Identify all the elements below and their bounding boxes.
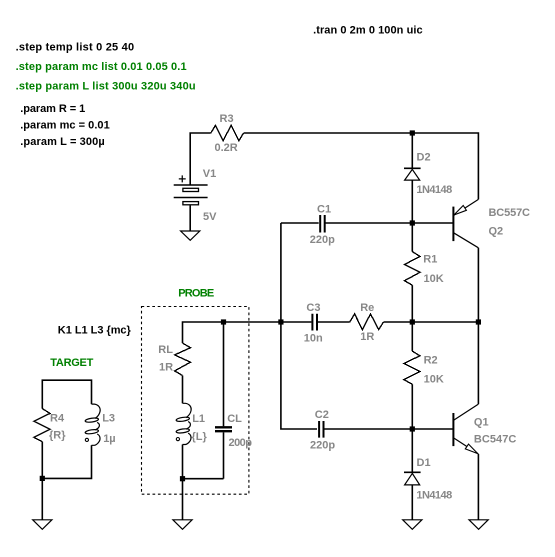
- resistor R2: [404, 322, 444, 429]
- junction Q1 base node: [410, 426, 415, 431]
- svg-text:R2: R2: [424, 355, 438, 367]
- inductor L1: [176, 403, 208, 444]
- wire RL bottom to L1 top: [182, 376, 184, 404]
- transistor Q1: [453, 404, 516, 454]
- svg-text:5V: 5V: [203, 211, 217, 223]
- wire C1 left down to C2 left: [281, 223, 317, 429]
- svg-text:220p: 220p: [310, 440, 335, 452]
- wire D2 bottom to Q2 base node: [411, 180, 413, 223]
- svg-text:.step param mc list 0.01 0.05: .step param mc list 0.01 0.05 0.1: [16, 61, 187, 73]
- svg-text:C1: C1: [317, 203, 331, 215]
- svg-text:TARGET: TARGET: [50, 357, 93, 369]
- resistor Re: [350, 302, 384, 343]
- wire D2 top: [411, 133, 413, 168]
- svg-text:10n: 10n: [304, 333, 323, 345]
- junction TARGET bottom node: [40, 476, 45, 481]
- junction PROBE bottom node: [180, 476, 185, 481]
- ground V1: [181, 231, 200, 240]
- junction Q2 base node: [410, 220, 415, 225]
- junction collectors node: [476, 319, 481, 324]
- voltage source V1 battery: [174, 168, 217, 223]
- capacitor C2: [310, 409, 412, 451]
- junction CL top: [221, 319, 226, 324]
- wire Q2 base: [412, 222, 452, 224]
- inductor L3: [85, 404, 116, 445]
- wire Q1 base: [412, 428, 452, 430]
- svg-text:K1 L1 L3 {mc}: K1 L1 L3 {mc}: [58, 325, 132, 337]
- wire Q1 collector up: [477, 322, 479, 404]
- svg-text:10K: 10K: [424, 273, 444, 285]
- svg-text:C2: C2: [315, 409, 329, 421]
- wire Q1 emitter to ground: [477, 454, 479, 520]
- wire probe bottom node: [183, 478, 224, 480]
- svg-text:Re: Re: [360, 302, 374, 314]
- svg-text:1N4148: 1N4148: [416, 489, 452, 501]
- svg-text:200p: 200p: [229, 437, 253, 449]
- capacitor CL: [215, 322, 252, 479]
- svg-text:R3: R3: [220, 113, 234, 125]
- svg-text:.param L = 300µ: .param L = 300µ: [20, 136, 105, 148]
- ground PROBE: [173, 520, 192, 530]
- svg-text:BC557C: BC557C: [489, 207, 531, 219]
- wire R3 right along top rail down to Q2 emitter: [244, 133, 479, 199]
- junction R1/R2/Re node: [410, 319, 415, 324]
- wire TARGET bottom: [42, 442, 91, 479]
- diode D2: [404, 152, 452, 196]
- capacitor C1: [281, 203, 412, 246]
- svg-text:R4: R4: [50, 413, 65, 425]
- svg-text:Q2: Q2: [489, 225, 504, 237]
- svg-text:L1: L1: [192, 413, 205, 425]
- svg-text:{L}: {L}: [192, 431, 208, 443]
- wire V1 top to R3 left: [190, 133, 211, 185]
- ground D1: [403, 520, 422, 530]
- svg-text:.param mc = 0.01: .param mc = 0.01: [20, 120, 110, 132]
- svg-text:CL: CL: [227, 413, 242, 425]
- svg-text:.tran 0 2m 0 100n uic: .tran 0 2m 0 100n uic: [313, 25, 423, 37]
- resistor R1: [405, 223, 444, 322]
- resistor R4: [34, 409, 66, 442]
- svg-text:1µ: 1µ: [103, 433, 115, 445]
- transistor Q2: [453, 199, 530, 247]
- wire V1 bottom to ground: [189, 205, 191, 231]
- svg-text:Q1: Q1: [474, 416, 489, 428]
- resistor RL: [158, 343, 190, 375]
- svg-text:BC547C: BC547C: [474, 433, 516, 445]
- svg-text:RL: RL: [158, 344, 173, 356]
- wire Re right to Q collectors node: [384, 321, 479, 323]
- diode D1: [404, 457, 452, 501]
- wire TARGET top: [42, 380, 91, 408]
- ground Q1: [469, 520, 488, 530]
- svg-text:.step param L list 300u 320u 3: .step param L list 300u 320u 340u: [16, 81, 196, 93]
- svg-text:.step temp list 0 25 40: .step temp list 0 25 40: [16, 41, 135, 53]
- wire TARGET node to ground: [41, 478, 43, 519]
- wire D1 top: [411, 429, 413, 472]
- probe enclosure dashed box: [142, 307, 249, 495]
- wire D1 bottom to ground: [411, 485, 413, 520]
- svg-text:L3: L3: [102, 413, 115, 425]
- wire L1 bottom to probe node: [182, 445, 184, 479]
- wire probe node to ground: [182, 479, 184, 520]
- svg-text:1R: 1R: [159, 362, 173, 374]
- svg-text:R1: R1: [423, 254, 437, 266]
- svg-text:0.2R: 0.2R: [215, 142, 238, 154]
- svg-text:1R: 1R: [360, 331, 374, 343]
- svg-text:220p: 220p: [310, 234, 335, 246]
- svg-text:C3: C3: [306, 302, 320, 314]
- wire Q2 collector down: [477, 248, 479, 322]
- capacitor C3: [281, 302, 350, 344]
- junction C-string mid: [278, 319, 283, 324]
- resistor R3: [211, 113, 244, 154]
- svg-text:PROBE: PROBE: [178, 287, 214, 299]
- svg-text:10K: 10K: [424, 374, 444, 386]
- svg-text:D1: D1: [417, 457, 431, 469]
- wire mid row PROBE to C3: [183, 322, 281, 343]
- svg-text:V1: V1: [203, 168, 216, 180]
- junction top rail / D2: [410, 130, 415, 135]
- ground TARGET: [33, 520, 52, 530]
- svg-text:.param R = 1: .param R = 1: [20, 103, 85, 115]
- svg-text:D2: D2: [417, 152, 431, 164]
- svg-text:{R}: {R}: [49, 429, 66, 441]
- svg-text:1N4148: 1N4148: [416, 184, 452, 196]
